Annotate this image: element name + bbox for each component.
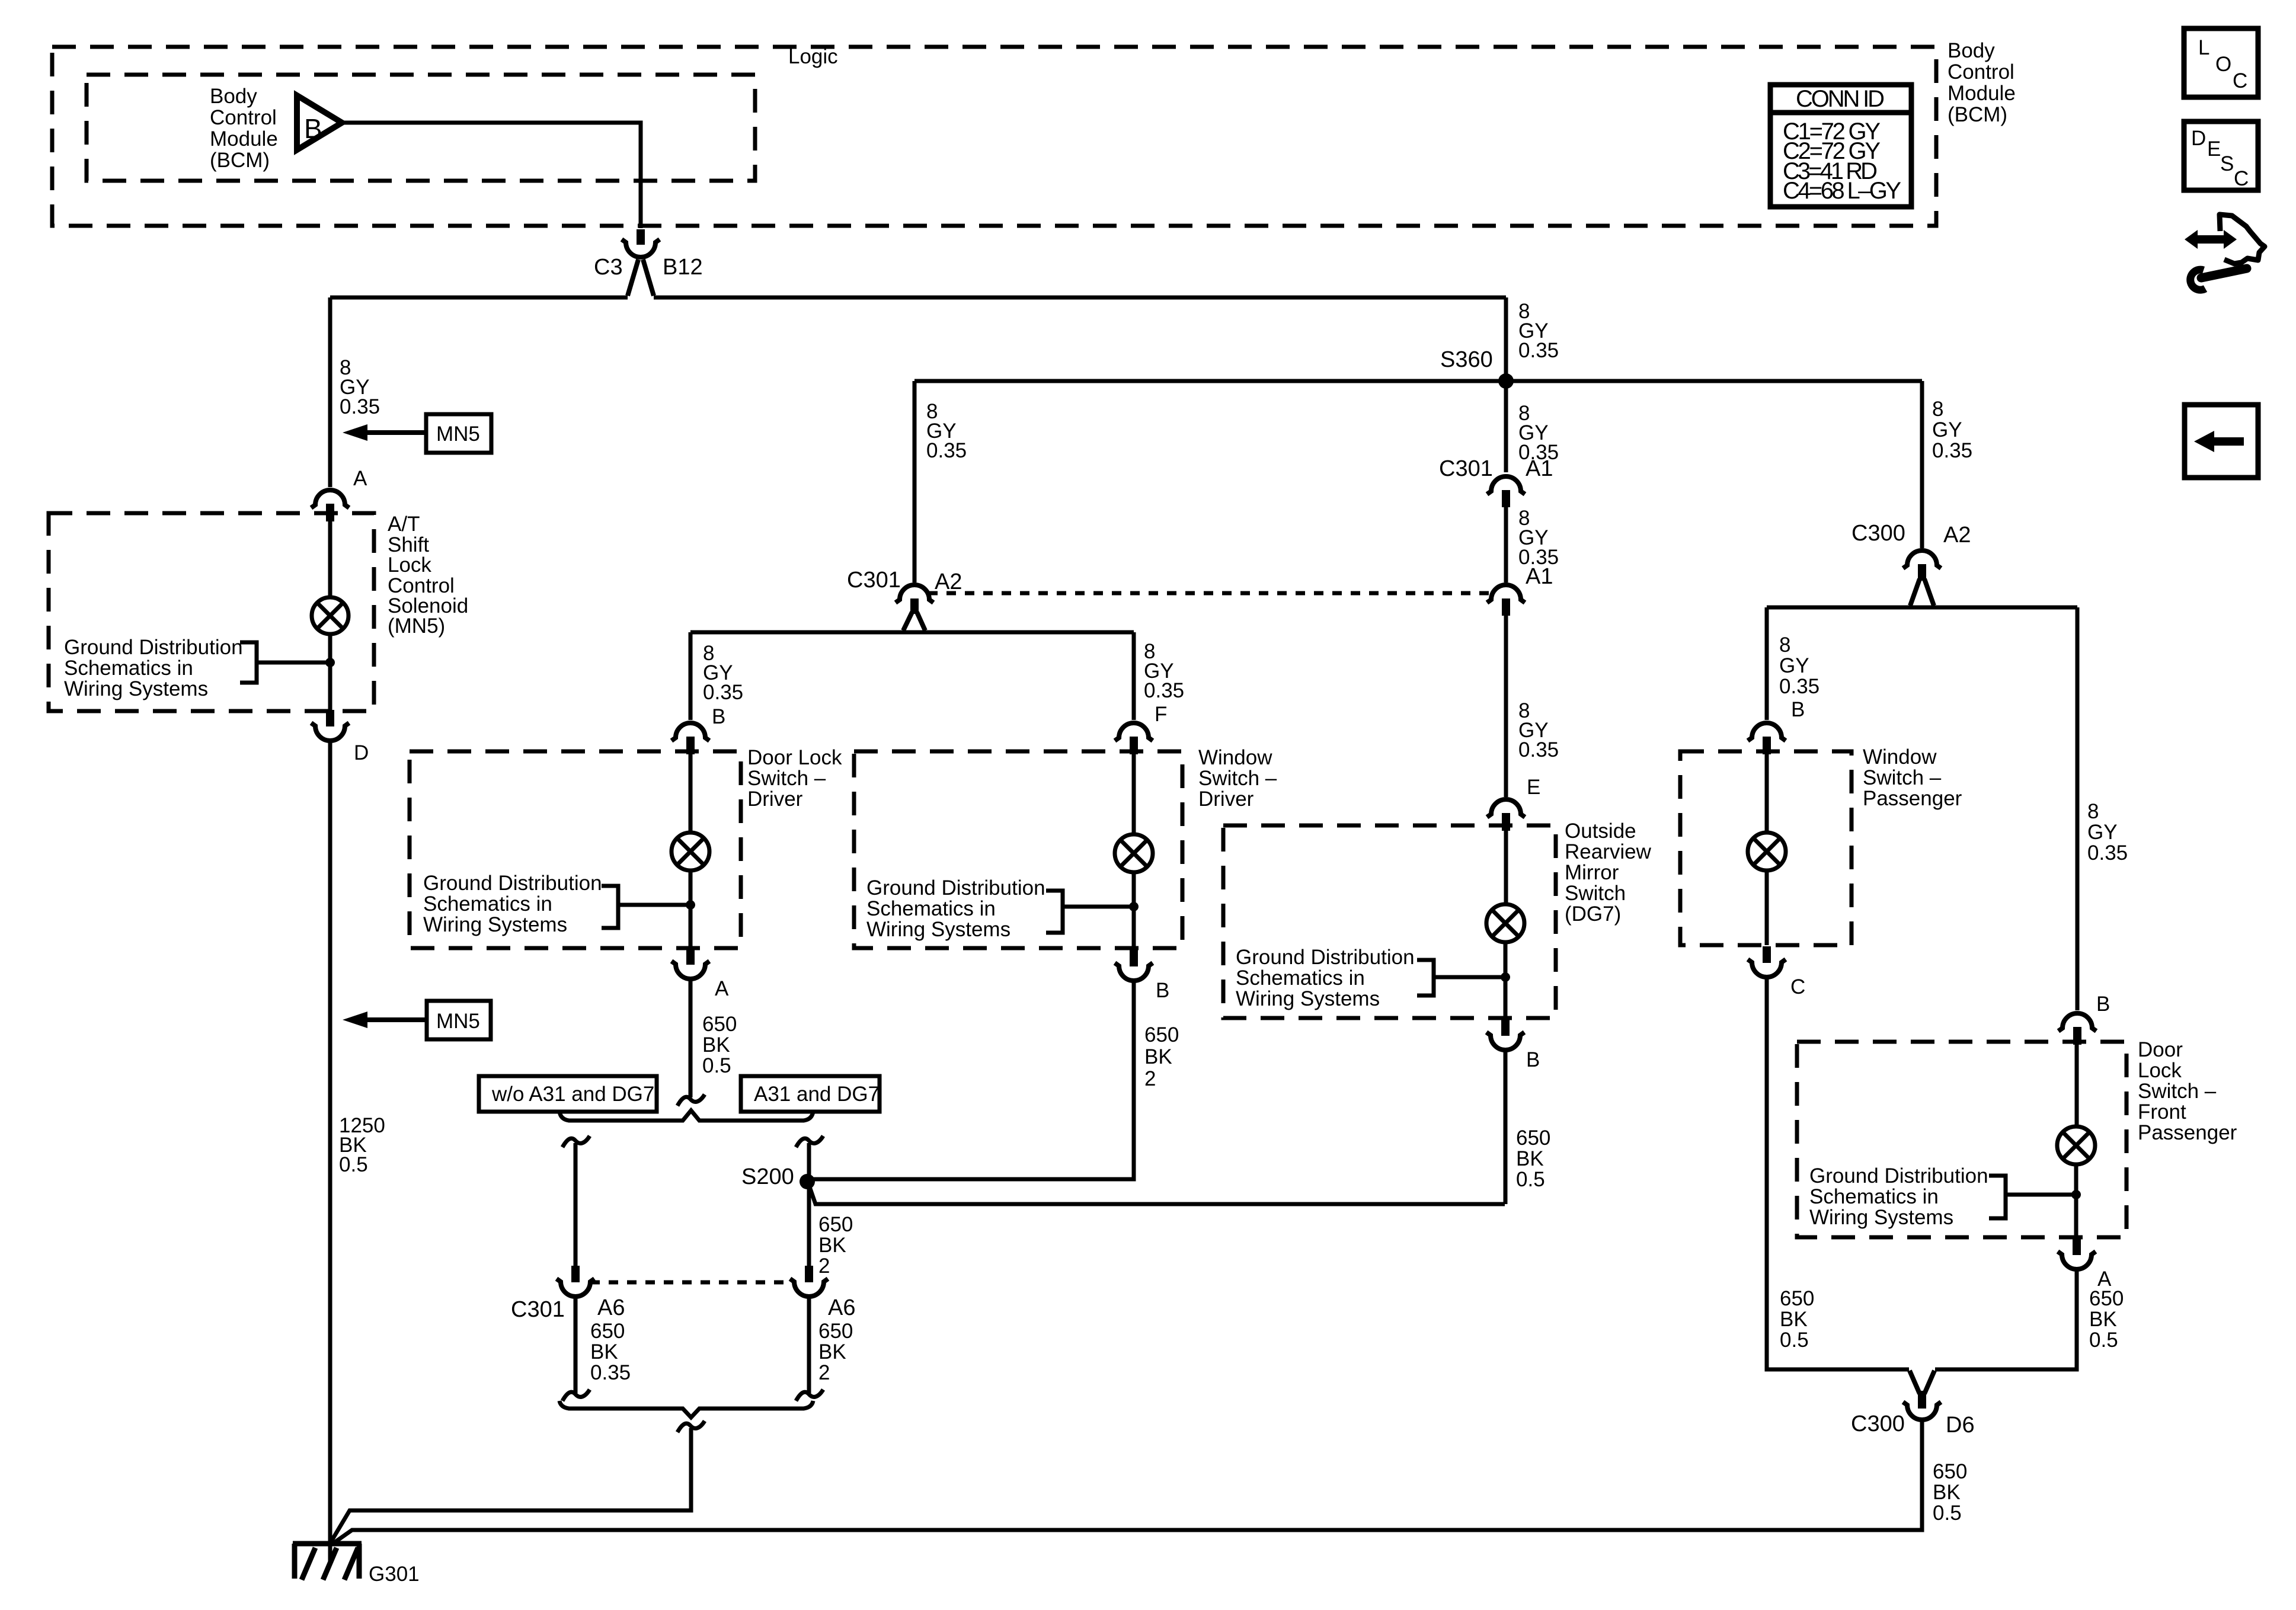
connector C300/D6 male pin [1918, 1391, 1926, 1409]
svg-text:GY: GY [2087, 821, 2118, 844]
svg-text:CONN ID: CONN ID [1796, 86, 1885, 112]
svg-text:Switch –: Switch – [747, 767, 826, 790]
svg-text:C: C [2233, 69, 2247, 92]
icon DESC box [2184, 121, 2258, 190]
node ground tap driver door [686, 900, 695, 910]
hook left option end [562, 1390, 590, 1401]
crossref arrow MN5 lower [343, 1001, 491, 1039]
svg-text:BK: BK [702, 1033, 730, 1057]
buffer gate B inside BCM [297, 95, 342, 150]
solenoid lamp MN5 [312, 597, 348, 634]
svg-text:BK: BK [1144, 1045, 1172, 1068]
svg-text:B: B [304, 113, 322, 144]
svg-text:A6: A6 [828, 1295, 855, 1320]
svg-text:0.5: 0.5 [2089, 1329, 2118, 1352]
option box A31 and DG7 [741, 1076, 880, 1112]
bracket ground distribution (mirror) [1417, 960, 1505, 996]
svg-text:Switch –: Switch – [1863, 766, 1942, 789]
svg-text:Logic: Logic [788, 45, 838, 68]
wire lamp to box bottom front passenger [2074, 1164, 2078, 1237]
svg-text:0.35: 0.35 [1144, 679, 1184, 702]
connector B male pin mirror [1501, 1020, 1510, 1036]
svg-text:GY: GY [1779, 654, 1809, 677]
wire option left w/o A31 [574, 1143, 578, 1266]
wire lamp to box bottom [328, 634, 332, 711]
svg-text:C: C [1790, 975, 1805, 998]
svg-text:MN5: MN5 [436, 422, 480, 446]
wire window passenger C down to C300 merge [1767, 978, 1909, 1369]
svg-text:Ground Distribution: Ground Distribution [64, 636, 243, 659]
connector C301/A2 socket [896, 585, 933, 603]
wire right vertical bus corner down to S360 [1504, 297, 1508, 472]
svg-text:E: E [1527, 776, 1540, 799]
wire lamp to box bottom mirror [1504, 942, 1508, 1018]
wire branch to door lock front passenger [2076, 607, 2080, 1010]
svg-text:L: L [2198, 36, 2209, 59]
wire main ground bus 8 GY [330, 296, 1506, 300]
connector C301/A6 right male pin [805, 1266, 813, 1282]
module Window Switch Driver dashed box [854, 751, 1182, 948]
svg-text:Switch: Switch [1565, 882, 1626, 905]
svg-text:Ground Distribution: Ground Distribution [423, 872, 602, 895]
svg-text:Control: Control [1948, 60, 2014, 84]
svg-text:GY: GY [1932, 418, 1962, 441]
svg-text:Lock: Lock [2138, 1059, 2182, 1082]
svg-text:Front: Front [2138, 1100, 2186, 1124]
node ground tap front passenger [2071, 1190, 2081, 1199]
svg-text:F: F [1155, 703, 1167, 726]
wire mirror B down to S200 branch [1504, 1051, 1508, 1204]
svg-text:C300: C300 [1851, 1411, 1905, 1436]
wire C300 D6 down to ground bus [332, 1421, 1922, 1544]
svg-text:Wiring Systems: Wiring Systems [423, 913, 567, 936]
wire branch to window switch driver F [1132, 632, 1136, 720]
svg-text:A: A [353, 467, 367, 490]
svg-text:0.35: 0.35 [2087, 841, 2128, 865]
svg-text:D: D [354, 741, 369, 764]
svg-text:MN5: MN5 [436, 1010, 480, 1033]
wire branch to door lock switch driver B [689, 632, 693, 720]
wire door switch bus [690, 630, 1134, 635]
hook right option start [796, 1136, 823, 1147]
svg-text:A6: A6 [597, 1295, 625, 1320]
option merge brace lower [559, 1401, 813, 1417]
svg-text:B12: B12 [663, 255, 703, 280]
crossref arrow MN5 upper [343, 414, 491, 453]
wire option right A31 and DG7 [807, 1143, 811, 1266]
svg-text:Switch –: Switch – [2138, 1080, 2217, 1103]
connector A male pin [326, 504, 334, 521]
connector D socket [311, 723, 349, 741]
option split brace upper [559, 1110, 813, 1121]
svg-text:0.35: 0.35 [1518, 738, 1559, 761]
module Door Lock Switch Front Passenger dashed box [1797, 1042, 2126, 1237]
svg-text:S200: S200 [741, 1164, 794, 1189]
wire BCM output B to connector C3 [342, 123, 641, 228]
connector B socket driver door lock [671, 723, 709, 741]
svg-text:w/o A31 and DG7: w/o A31 and DG7 [491, 1083, 654, 1106]
svg-text:Schematics in: Schematics in [423, 892, 552, 916]
connector C301/A1 lower male pin [1502, 598, 1510, 616]
connector A socket front passenger [2058, 1251, 2096, 1269]
svg-text:C301: C301 [1439, 456, 1493, 481]
svg-text:Body: Body [1948, 39, 1995, 62]
option box w/o A31 and DG7 [479, 1076, 657, 1112]
wire A down to option split [689, 980, 693, 1097]
svg-text:Rearview: Rearview [1565, 840, 1652, 863]
svg-text:Lock: Lock [388, 553, 431, 577]
node ground tap window driver [1129, 902, 1139, 911]
wire left vertical from bus to connector A [328, 297, 332, 487]
connector B socket mirror [1486, 1032, 1524, 1050]
connector C socket window passenger [1748, 959, 1786, 977]
connector B male pin window passenger [1763, 737, 1771, 754]
bracket ground distribution (window driver) [1046, 891, 1134, 933]
svg-text:650: 650 [590, 1320, 625, 1343]
connector B male pin [686, 737, 695, 754]
svg-text:D: D [2191, 127, 2206, 150]
connector C301/A1 upper male pin [1502, 490, 1510, 507]
wire dotted C301 connector line A2 to A1 [928, 591, 1492, 596]
wire B pin to front passenger lamp [2075, 1045, 2079, 1126]
svg-text:Ground Distribution: Ground Distribution [1236, 946, 1415, 969]
svg-text:Module: Module [210, 127, 278, 151]
svg-text:BK: BK [818, 1234, 846, 1257]
bracket ground distribution (front passenger) [1989, 1176, 2076, 1218]
svg-text:G301: G301 [369, 1563, 420, 1586]
svg-text:Passenger: Passenger [2138, 1121, 2237, 1144]
connector D male pin [326, 710, 334, 726]
svg-text:650: 650 [1780, 1287, 1814, 1310]
svg-text:BK: BK [1780, 1308, 1808, 1331]
icon back arrow box [2185, 405, 2258, 478]
svg-text:C3: C3 [594, 255, 623, 280]
svg-text:Module: Module [1948, 82, 2016, 105]
connector B socket front passenger [2058, 1013, 2096, 1031]
hook right option end [796, 1390, 823, 1401]
connector C3/B12 fork to ground bus [628, 260, 654, 296]
svg-text:(BCM): (BCM) [1948, 103, 2007, 126]
svg-text:(DG7): (DG7) [1565, 902, 1621, 926]
svg-text:A2: A2 [1943, 523, 1971, 548]
lamp window switch passenger [1748, 833, 1786, 870]
svg-text:Schematics in: Schematics in [1809, 1185, 1939, 1208]
wire E pin to mirror lamp [1504, 831, 1508, 904]
svg-text:B: B [1791, 698, 1805, 721]
svg-text:2: 2 [1144, 1067, 1156, 1090]
svg-text:B: B [2096, 993, 2110, 1016]
svg-text:Driver: Driver [747, 788, 803, 811]
wire merged 650 BK to ground bus [331, 1428, 691, 1541]
svg-text:Window: Window [1198, 746, 1272, 769]
svg-text:Window: Window [1863, 745, 1937, 769]
svg-text:0.35: 0.35 [1932, 439, 1972, 462]
node splice S200 [800, 1174, 815, 1189]
svg-text:Door: Door [2138, 1038, 2183, 1061]
svg-text:BK: BK [1516, 1147, 1544, 1170]
lamp window switch driver [1115, 834, 1153, 872]
bracket ground distribution (A/T) [240, 642, 330, 683]
wire F pin to window driver lamp [1132, 754, 1136, 834]
svg-text:(BCM): (BCM) [210, 149, 270, 172]
svg-text:S: S [2220, 152, 2234, 175]
connector C301/A2 male pin [910, 598, 919, 614]
connector C300/A2 male pin [1918, 564, 1926, 581]
module BCM outer dashed box [52, 47, 1936, 226]
svg-text:B: B [1526, 1048, 1540, 1071]
connector A socket driver door [671, 961, 709, 979]
connector B socket window driver [1115, 963, 1153, 981]
connector C3/B12 male pin [637, 229, 645, 245]
svg-text:8: 8 [1779, 633, 1790, 657]
connector C301/A6 left socket [557, 1279, 594, 1297]
wire front passenger A down to C300 merge [1935, 1270, 2077, 1369]
connector C301/A1 lower socket [1487, 585, 1525, 603]
lamp outside rearview mirror switch [1486, 904, 1524, 942]
connector F socket window driver [1115, 723, 1153, 741]
wire end hook above option split [677, 1094, 705, 1106]
svg-text:Wiring Systems: Wiring Systems [64, 677, 208, 700]
wire lamp to box bottom passenger window [1765, 870, 1769, 945]
svg-text:C301: C301 [511, 1297, 565, 1322]
svg-text:Outside: Outside [1565, 820, 1636, 843]
connector C300/A2 socket [1903, 550, 1941, 568]
wire passenger bus [1767, 606, 2077, 610]
svg-text:BK: BK [2089, 1308, 2117, 1331]
wire lamp to box bottom driver [689, 870, 693, 948]
svg-text:C300: C300 [1851, 521, 1905, 546]
connector F male pin [1130, 737, 1138, 754]
svg-text:0.35: 0.35 [926, 439, 967, 462]
hook left option start [562, 1136, 590, 1147]
svg-text:S360: S360 [1440, 347, 1493, 372]
connector A socket at A/T solenoid [311, 490, 349, 508]
svg-text:BK: BK [590, 1340, 618, 1363]
connector C300/D6 merge fork [1910, 1371, 1934, 1394]
wire window driver B down to S200 bus [807, 982, 1134, 1179]
svg-text:0.35: 0.35 [590, 1361, 631, 1384]
svg-text:A: A [715, 977, 729, 1000]
svg-text:2: 2 [818, 1254, 830, 1278]
wire left option down to merge [574, 1298, 578, 1393]
lamp door lock switch driver [671, 833, 709, 870]
svg-text:650: 650 [1144, 1023, 1179, 1046]
icon wiring repair (arrows and wrench) [2185, 215, 2265, 290]
svg-text:8: 8 [1932, 398, 1943, 421]
svg-text:650: 650 [702, 1013, 737, 1036]
svg-text:0.5: 0.5 [339, 1153, 368, 1176]
svg-text:Schematics in: Schematics in [1236, 966, 1365, 990]
svg-text:C301: C301 [847, 568, 901, 593]
svg-text:BK: BK [1933, 1481, 1961, 1504]
svg-text:650: 650 [1933, 1460, 1967, 1483]
node ground tap in A/T box [325, 658, 335, 667]
wire left vertical 1250 BK to ground [328, 742, 332, 1564]
connector C300/A2 fork to passenger bus [1910, 579, 1934, 606]
svg-text:A31 and DG7: A31 and DG7 [754, 1083, 880, 1106]
svg-text:Door Lock: Door Lock [747, 746, 842, 769]
wire branch to window switch passenger [1765, 607, 1769, 720]
wire S360 bus corner down to C300 A2 [1920, 381, 1924, 548]
connector A male pin front passenger [2073, 1238, 2081, 1255]
svg-text:Switch –: Switch – [1198, 767, 1277, 790]
ground G301 symbol [293, 1544, 362, 1580]
svg-text:B: B [712, 705, 725, 728]
module A/T Shift Lock Control Solenoid dashed box [49, 513, 374, 711]
svg-text:650: 650 [818, 1213, 853, 1236]
svg-text:Wiring Systems: Wiring Systems [866, 918, 1011, 941]
wire S360 branch down to C301/A2 [913, 381, 917, 582]
svg-text:D6: D6 [1946, 1413, 1975, 1438]
wire A1 to connector E [1504, 616, 1508, 797]
svg-text:Ground Distribution: Ground Distribution [866, 876, 1045, 900]
connector C3/B12 female socket [622, 239, 660, 257]
svg-text:Ground Distribution: Ground Distribution [1809, 1164, 1988, 1188]
connector C301/A6 right socket [790, 1279, 828, 1297]
svg-text:2: 2 [818, 1361, 830, 1384]
svg-text:650: 650 [1516, 1126, 1550, 1150]
svg-text:O: O [2215, 53, 2231, 76]
wire S200 to outside mirror branch [809, 1185, 1505, 1204]
svg-text:C4=68 L–GY: C4=68 L–GY [1783, 178, 1901, 204]
module Door Lock Switch Driver dashed box [410, 751, 741, 948]
bracket ground distribution (driver door) [602, 886, 690, 928]
wire B pin to passenger window lamp [1765, 754, 1769, 833]
connector C male pin window passenger [1763, 946, 1771, 963]
label CONN ID table [1770, 85, 1911, 207]
svg-text:0.5: 0.5 [1780, 1329, 1809, 1352]
wire dashed C301 connector line at A6 [590, 1281, 794, 1285]
svg-text:Wiring Systems: Wiring Systems [1809, 1206, 1953, 1229]
svg-text:0.35: 0.35 [1779, 675, 1819, 698]
svg-text:0.5: 0.5 [1933, 1502, 1962, 1525]
connector E male pin [1502, 813, 1510, 831]
svg-text:Passenger: Passenger [1863, 787, 1962, 810]
svg-text:(MN5): (MN5) [388, 614, 445, 638]
connector B male pin front passenger [2073, 1027, 2081, 1045]
wire B pin to driver door lamp [689, 754, 693, 833]
connector B male pin window driver [1130, 950, 1138, 966]
svg-text:Driver: Driver [1198, 788, 1254, 811]
svg-text:0.35: 0.35 [703, 681, 743, 704]
svg-text:A2: A2 [935, 569, 962, 594]
svg-text:Wiring Systems: Wiring Systems [1236, 987, 1380, 1010]
svg-text:B: B [1156, 979, 1169, 1002]
svg-text:0.5: 0.5 [1516, 1168, 1545, 1191]
wire lamp to box bottom window driver [1132, 872, 1136, 948]
wire right option down to merge [807, 1298, 811, 1393]
module Outside Rearview Mirror Switch dashed box [1223, 825, 1556, 1018]
node ground tap mirror [1501, 972, 1510, 982]
node splice S360 [1498, 373, 1514, 389]
svg-text:Body: Body [210, 85, 257, 108]
connector C301/A2 fork to door switch bus [903, 612, 925, 630]
connector C301/A1 upper socket [1487, 476, 1525, 494]
module Window Switch Passenger dashed box [1680, 751, 1851, 945]
svg-text:650: 650 [818, 1320, 853, 1343]
svg-text:Schematics in: Schematics in [866, 897, 996, 920]
connector C301/A6 left male pin [571, 1266, 580, 1282]
svg-text:Schematics in: Schematics in [64, 657, 193, 680]
svg-text:A1: A1 [1526, 456, 1553, 481]
svg-text:Mirror: Mirror [1565, 861, 1619, 884]
wire pin A to solenoid lamp [328, 521, 332, 597]
connector B socket window passenger [1748, 723, 1786, 741]
lamp door lock switch front passenger [2057, 1126, 2095, 1164]
svg-text:BK: BK [818, 1340, 846, 1363]
svg-text:650: 650 [2089, 1287, 2124, 1310]
svg-text:0.35: 0.35 [1518, 339, 1559, 362]
icon LOC box [2184, 28, 2258, 97]
svg-text:0.5: 0.5 [702, 1054, 731, 1077]
BCM logic inner dashed box [87, 75, 755, 181]
svg-text:A/T: A/T [388, 513, 420, 536]
svg-text:8: 8 [2087, 800, 2099, 823]
connector A male pin driver door [686, 948, 695, 965]
svg-text:Control: Control [210, 106, 277, 129]
wire between A1 connectors [1504, 507, 1508, 582]
hook below merge [677, 1421, 705, 1432]
svg-text:C: C [2234, 167, 2249, 190]
wire S360 horizontal bus [914, 379, 1922, 383]
svg-text:0.35: 0.35 [340, 395, 380, 418]
svg-text:E: E [2207, 137, 2221, 161]
connector C300/D6 socket [1903, 1402, 1941, 1420]
svg-text:A1: A1 [1526, 564, 1553, 589]
